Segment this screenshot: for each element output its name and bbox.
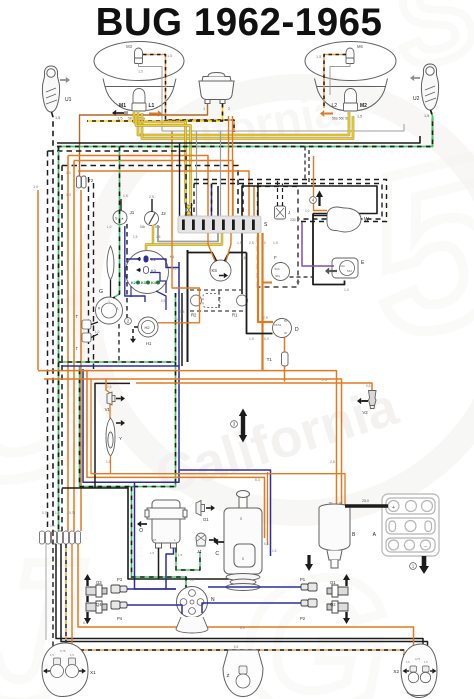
svg-text:1,5: 1,5: [117, 116, 123, 121]
sender Y: [106, 418, 115, 456]
wire black dashed feeder 2: [62, 166, 238, 217]
svg-text:1,0: 1,0: [190, 578, 195, 582]
svg-text:1,5: 1,5: [133, 235, 138, 239]
wire J1 down dashed: [126, 224, 128, 250]
wire below speedo black 2: [181, 293, 183, 366]
svg-text:✶: ✶: [121, 217, 124, 221]
svg-text:1,5: 1,5: [50, 653, 54, 657]
indicator lamp K3: [144, 267, 149, 274]
decorative watermark (not labelled further): [87, 83, 474, 513]
wire J1 up black: [120, 199, 122, 211]
wire black mid to engine: [62, 488, 250, 579]
charge warning bowtie: [185, 205, 193, 215]
svg-text:1,5: 1,5: [273, 241, 278, 245]
svg-text:L,0: L,0: [95, 330, 100, 334]
wire black dashed feeder: [48, 151, 187, 216]
svg-text:1,0: 1,0: [66, 193, 71, 197]
svg-text:30: 30: [284, 331, 288, 335]
distributor base: [176, 617, 208, 633]
svg-text:BUG 1962-1965: BUG 1962-1965: [96, 1, 383, 44]
generator C: [224, 491, 262, 575]
wire orange generator stub: [267, 472, 269, 545]
svg-text:1,0: 1,0: [33, 185, 38, 189]
wire black rear b: [61, 544, 428, 668]
sender J4: [196, 533, 206, 546]
svg-text:30: 30: [339, 501, 343, 505]
svg-text:50b: 50b: [275, 267, 280, 271]
svg-text:L1: L1: [149, 103, 155, 109]
wire M6 left (orange dashed): [324, 55, 346, 109]
wire black bus: [57, 136, 420, 143]
wire W E loop black: [313, 214, 345, 285]
wire below speedo blue: [178, 262, 180, 366]
wire ground dashed pair b: [93, 183, 95, 370]
wire below speedo black: [187, 250, 189, 362]
switch J1: [113, 211, 127, 225]
svg-text:1,5: 1,5: [237, 241, 242, 245]
svg-text:1,5: 1,5: [249, 337, 254, 341]
wire Z stub: [240, 650, 242, 666]
svg-text:H1: H1: [146, 341, 152, 346]
wire F orange feed: [263, 282, 273, 284]
wire comb black: [217, 186, 219, 216]
svg-text:F: F: [274, 255, 277, 260]
relay J: [275, 206, 286, 219]
svg-text:K2: K2: [131, 281, 136, 285]
svg-text:R: R: [98, 307, 101, 311]
battery A: [382, 494, 439, 556]
fuse box S: [178, 216, 261, 233]
parking bulb M3: [135, 48, 143, 64]
wire M3 gray drop: [139, 64, 163, 132]
wire orange feeder 3: [78, 171, 249, 216]
spark plug Q4: [86, 601, 107, 613]
wire black dashed bundle b: [61, 166, 63, 532]
svg-text:T: T: [75, 314, 78, 319]
wire bowtie blacks: [186, 203, 192, 216]
wire U1 down (black dashed): [52, 112, 54, 531]
svg-text:1,5: 1,5: [296, 280, 301, 284]
wire yellow bus 1: [138, 111, 349, 135]
wire D orange feed: [258, 233, 273, 322]
flasher V2: [369, 391, 377, 409]
svg-text:15: 15: [153, 538, 157, 542]
spark plug Q3: [86, 585, 107, 597]
X2 bulbs: [410, 666, 417, 672]
bulb L2 M2: [344, 89, 358, 112]
wire yellow bus 2: [142, 113, 353, 139]
svg-text:1,0: 1,0: [176, 317, 181, 321]
wire blue ring: [62, 366, 179, 482]
X1 bulbs: [54, 658, 61, 665]
svg-text:KS: KS: [212, 268, 218, 273]
svg-text:P1: P1: [300, 577, 306, 582]
svg-text:15/54: 15/54: [274, 323, 282, 327]
beam arrow left of L2: [324, 113, 333, 115]
plug connector P1: [301, 583, 317, 591]
svg-text:0,75: 0,75: [60, 649, 66, 653]
coil arrow: [141, 523, 147, 525]
svg-text:1,5: 1,5: [357, 115, 362, 119]
svg-text:6,3: 6,3: [264, 542, 269, 546]
starter ground arrow: [307, 555, 310, 566]
wire blue column down from J2: [130, 286, 132, 297]
wire blue lower loop: [179, 470, 271, 556]
spark plug Q1: [327, 585, 348, 597]
wire blue exit to engine: [135, 482, 177, 589]
switch E: [332, 258, 358, 278]
wire green exit to engine: [132, 487, 187, 590]
wire D down orange through T1: [284, 338, 286, 382]
svg-text:0,75: 0,75: [42, 511, 48, 515]
wire orange bundle c from T2: [80, 190, 82, 531]
wire green dashed column centre: [113, 147, 120, 299]
svg-text:M1: M1: [119, 103, 126, 109]
svg-text:M3: M3: [126, 44, 132, 49]
indicator lamp K1: [144, 256, 149, 263]
svg-text:1,5: 1,5: [316, 55, 321, 59]
tail light X2: [401, 644, 437, 698]
svg-text:2,5: 2,5: [249, 241, 254, 245]
fuel gauge G dial: [96, 297, 123, 324]
svg-text:L2: L2: [331, 103, 337, 109]
wire coil green bits: [176, 548, 200, 570]
svg-text:O: O: [139, 528, 143, 534]
wire comb black dashed 2: [242, 184, 244, 217]
svg-text:R2: R2: [191, 313, 197, 318]
wire speedo bottom links: [156, 291, 166, 310]
svg-text:K3: K3: [141, 281, 146, 285]
generator pulley: [226, 574, 260, 591]
battery cable to starter: [345, 504, 388, 508]
wire black dashed into X1: [52, 531, 54, 646]
svg-text:D: D: [295, 327, 299, 333]
wire W stub: [313, 215, 327, 217]
clutch cable arrow 3: [241, 414, 245, 437]
svg-text:50: 50: [284, 319, 288, 323]
svg-text:•: •: [108, 299, 109, 303]
wire green dashed bundle: [58, 147, 60, 532]
arrow at U2: [414, 77, 420, 79]
svg-text:1,5: 1,5: [424, 114, 429, 118]
distributor N: [177, 587, 208, 618]
svg-text:Q1: Q1: [330, 580, 336, 585]
wire D black feed: [247, 253, 273, 334]
svg-text:1,5: 1,5: [272, 549, 277, 553]
wire orange feeder 2: [74, 161, 233, 217]
wire F dashed right: [290, 276, 313, 278]
svg-text:6,3: 6,3: [255, 478, 260, 482]
wire orange bundle b: [73, 161, 75, 532]
svg-text:0,5: 0,5: [241, 256, 246, 260]
wire dashed pair to bus: [304, 147, 306, 180]
svg-text:1,5: 1,5: [70, 653, 74, 657]
connector T2: [77, 176, 87, 188]
wire J2 yellow down: [153, 225, 222, 245]
wire coil black: [158, 548, 160, 579]
wire horn right terminal yellow dashed: [87, 104, 223, 122]
svg-text:J4: J4: [197, 549, 202, 554]
svg-text:T: T: [75, 346, 78, 351]
svg-text:6,0: 6,0: [264, 337, 269, 341]
parking bulb M6: [346, 48, 354, 64]
svg-text:L,0: L,0: [107, 225, 112, 229]
arrow at E: [329, 270, 337, 272]
svg-text:25,0: 25,0: [362, 499, 369, 503]
wire comb orange pair b: [232, 116, 234, 216]
svg-text:1,5: 1,5: [167, 54, 172, 58]
svg-text:1,0: 1,0: [66, 171, 71, 175]
plug arrow Q3: [86, 578, 88, 586]
wire U2 down joins green: [431, 110, 433, 147]
svg-text:O1: O1: [203, 517, 209, 522]
wire orange loop A: [38, 371, 337, 506]
svg-text:N: N: [211, 597, 215, 603]
headlight left housing: [94, 42, 184, 111]
svg-text:Q4: Q4: [96, 602, 102, 607]
Z bulb: [239, 666, 247, 674]
wire green dashed ring: [59, 362, 176, 487]
svg-text:1,5: 1,5: [138, 70, 143, 74]
svg-text:50: 50: [329, 501, 333, 505]
wire orange bundle a: [67, 156, 69, 532]
wire orange main drop: [261, 233, 263, 371]
horn button H2: [138, 317, 158, 337]
svg-text:U1: U1: [65, 97, 72, 103]
svg-text:1,0: 1,0: [305, 209, 310, 213]
wire gray rear a: [45, 544, 47, 640]
wire comb orange pair a: [228, 116, 230, 216]
svg-text:X1: X1: [90, 670, 96, 675]
svg-text:M6: M6: [357, 44, 363, 49]
svg-text:31b: 31b: [340, 264, 345, 268]
svg-text:54d: 54d: [347, 269, 352, 273]
wire V1 feed: [106, 379, 110, 393]
wire comb black left: [179, 143, 181, 216]
svg-text:1,0: 1,0: [55, 511, 60, 515]
svg-text:0,5: 0,5: [161, 299, 166, 303]
wire needle to gauge: [110, 280, 112, 297]
wire below speedo green: [175, 293, 177, 362]
svg-text:+: +: [392, 505, 395, 511]
relay F: [272, 263, 290, 281]
spark plug Q2: [327, 601, 348, 613]
wire P1 blue: [208, 586, 301, 588]
turn signal U1: [42, 66, 59, 112]
svg-text:0,5: 0,5: [107, 385, 112, 389]
wire yellow bulb to bowtie 2: [136, 115, 191, 204]
wire W orange: [314, 156, 328, 211]
svg-text:Q2: Q2: [330, 602, 336, 607]
wire black dashed column centre: [126, 250, 128, 320]
wire black dashed loop top: [194, 180, 387, 222]
svg-text:6,0: 6,0: [240, 626, 245, 630]
svg-text:2,5: 2,5: [330, 460, 335, 464]
speedometer housing: [126, 251, 169, 294]
svg-text:0,75: 0,75: [69, 511, 75, 515]
svg-text:−: −: [424, 544, 427, 550]
wire bowtie to fuse yellow: [187, 214, 189, 217]
wire P3 blue: [127, 588, 176, 590]
svg-text:230: 230: [290, 218, 296, 222]
svg-text:J2: J2: [161, 211, 166, 216]
wiper motor W: [327, 207, 361, 232]
plug connector P3: [111, 585, 127, 593]
connector row T at dash: [39, 531, 80, 544]
wire H2 orange right: [158, 237, 200, 323]
wire P4 blue: [127, 605, 182, 614]
wire yellow bulb to bowtie 1: [134, 112, 186, 204]
svg-text:T1: T1: [267, 357, 273, 362]
svg-text:0,5: 0,5: [180, 310, 185, 314]
svg-text:T2: T2: [88, 178, 94, 183]
svg-text:1: 1: [203, 107, 205, 111]
wire M6 gray drop: [330, 64, 350, 96]
horn: [199, 73, 234, 104]
svg-text:J: J: [288, 210, 290, 215]
tail light X1: [42, 643, 88, 697]
svg-text:1,5: 1,5: [406, 660, 410, 664]
wire orange left margin: [37, 190, 39, 370]
svg-text:54b: 54b: [140, 225, 146, 229]
svg-text:1,5: 1,5: [123, 194, 128, 198]
svg-text:L: L: [117, 307, 119, 311]
wire E purple: [302, 222, 334, 266]
wire comb blue dashed: [211, 184, 213, 217]
svg-text:H2: H2: [145, 325, 151, 330]
svg-text:P4: P4: [117, 616, 123, 621]
wire black dashed loop outer: [194, 184, 382, 220]
wire T to gauge: [91, 322, 98, 325]
switch J2: [145, 212, 159, 226]
oil switch O1: [196, 501, 205, 516]
wire K1 blue right: [150, 259, 179, 268]
svg-text:Z: Z: [227, 673, 230, 678]
svg-text:X2: X2: [393, 669, 399, 674]
svg-text:6,5: 6,5: [234, 645, 239, 649]
wire orange lower second: [91, 379, 345, 506]
wire comb orange end: [253, 186, 255, 216]
svg-text:R1: R1: [232, 313, 238, 318]
wire coil blue to distributor: [166, 548, 174, 589]
svg-text:Y: Y: [119, 436, 122, 441]
wire orange feeder 1: [68, 156, 208, 217]
wire KS orange: [208, 233, 215, 261]
beam arrow right of L1: [149, 113, 158, 115]
wire black dashed bundle a: [47, 151, 49, 531]
relay box dashed tall: [258, 187, 299, 288]
ignition coil O: [145, 500, 187, 548]
svg-text:0,75: 0,75: [415, 657, 421, 661]
svg-text:V2: V2: [362, 410, 368, 415]
starter B: [319, 504, 350, 568]
ignition switch D: [273, 319, 292, 338]
bulb M1 L1: [132, 89, 146, 112]
wire black ring left: [95, 383, 130, 488]
svg-text:2: 2: [228, 107, 230, 111]
headlight right housing: [305, 42, 396, 111]
arrow at U1: [60, 79, 66, 81]
suppressor assembly R2 R1: [191, 294, 248, 308]
plug connector P2: [301, 599, 317, 607]
svg-text:G: G: [99, 289, 103, 295]
wire orange loop C to flasher: [136, 383, 372, 390]
svg-text:1,5: 1,5: [178, 553, 183, 557]
wire J2 gray down: [158, 225, 218, 242]
wire KS feed black: [188, 253, 217, 262]
wire Y stub: [110, 456, 112, 474]
wire comb black dashed: [193, 184, 195, 217]
svg-text:1,5: 1,5: [424, 660, 428, 664]
svg-text:0,5: 0,5: [366, 384, 371, 388]
generator arrow: [218, 541, 224, 543]
wire J1 blue to gauge: [125, 226, 145, 302]
wire below gauge dashed: [118, 324, 120, 362]
wire ground dashed pair a: [88, 177, 90, 366]
svg-text:C: C: [215, 551, 219, 557]
wire V1 stub: [109, 403, 111, 418]
svg-text:30a: 30a: [275, 274, 280, 278]
svg-text:Q3: Q3: [96, 580, 102, 585]
battery ground arrow: [422, 556, 427, 568]
wire black rear a: [56, 544, 423, 666]
svg-text:2,5: 2,5: [149, 195, 154, 199]
wire comb black end: [257, 184, 259, 217]
wire green bus to U2: [57, 117, 433, 147]
wire P2 blue: [202, 603, 301, 613]
svg-text:P2: P2: [300, 616, 306, 621]
wire orange rear long: [78, 544, 414, 666]
svg-text:M2: M2: [360, 103, 367, 109]
turn signal U2: [421, 64, 438, 110]
wire J up dashed pair: [277, 180, 279, 206]
beam arrow left of M1: [116, 112, 124, 114]
fuel gauge G needle: [107, 246, 114, 280]
wire yellow speedo stub: [146, 245, 153, 251]
valve V1: [107, 392, 115, 405]
wire orange loop B: [44, 379, 342, 506]
ground arrow at H2: [133, 327, 138, 336]
wire comb gray: [196, 131, 198, 216]
wire orange dashed rear: [66, 544, 404, 660]
wire horn left terminal: [80, 104, 208, 177]
svg-text:1,5: 1,5: [55, 116, 60, 120]
warning buzzer KS: [210, 260, 231, 281]
wire orange into X1: [71, 544, 73, 646]
svg-text:2,5: 2,5: [263, 316, 268, 320]
wire gray bus: [162, 124, 404, 131]
wire K3 blue: [150, 273, 166, 294]
wire orange left ring A: [87, 371, 265, 538]
connector T1: [282, 352, 289, 366]
svg-text:1,0: 1,0: [50, 524, 55, 528]
svg-text:1,0: 1,0: [344, 288, 349, 292]
svg-text:P3: P3: [117, 577, 123, 582]
svg-text:J1: J1: [130, 210, 135, 215]
plug connector P4: [111, 601, 127, 609]
svg-text:56a 56b 58: 56a 56b 58: [332, 117, 349, 121]
svg-text:1,5: 1,5: [150, 551, 155, 555]
wire comb gray 2: [220, 131, 222, 216]
svg-text:2,5: 2,5: [156, 235, 161, 239]
wire M3 to right (orange dashed): [143, 55, 234, 133]
svg-text:W: W: [364, 217, 369, 223]
arrow 4 up: [318, 195, 320, 206]
licence plate light Z: [223, 650, 263, 697]
svg-text:U2: U2: [413, 96, 420, 102]
connector T pair: [82, 320, 91, 342]
wire K1 blue left: [127, 258, 140, 260]
